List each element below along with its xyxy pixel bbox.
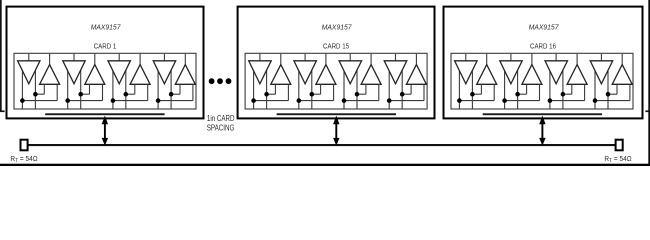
wire: receiver R3 input+ tap: [134, 84, 136, 94]
wire: receiver R2 output to CARD15 logic: [325, 54, 327, 65]
wire: receiver R1 output to CARD1 logic: [49, 54, 51, 65]
wire: receiver R1 input+ tap: [274, 84, 276, 94]
driver buffer D2 (CARD1): [63, 61, 85, 84]
wire: driver D3 input from CARD15 logic: [349, 54, 351, 61]
junction: D4 output- node: [593, 98, 598, 103]
driver buffer D2 (CARD15): [294, 61, 317, 84]
wire: receiver R2 input- tap: [102, 84, 104, 100]
junction: D1 output+ node: [470, 92, 475, 97]
wire: net D3-/R3- link: [113, 100, 148, 102]
wire: net D3+/R3+ link: [126, 93, 135, 95]
wire: driver D4 output- to bus stub: [607, 65, 609, 109]
card edge connector bar (CARD15): [277, 113, 396, 115]
junction: D4 output+ node: [169, 92, 174, 97]
wire: receiver R4 input+ tap: [616, 84, 618, 94]
wire: driver D1 input from CARD16 logic: [465, 54, 467, 61]
wire: receiver R4 input- tap: [192, 84, 194, 100]
wire: receiver R2 output to CARD1 logic: [94, 54, 96, 65]
wire: backplane bus: [28, 144, 615, 146]
receiver buffer R2 (CARD1): [85, 65, 105, 85]
wire: net D1+/R1+ link: [472, 93, 481, 95]
wire: bus stub arrow (CARD1 to backplane): [102, 116, 108, 146]
junction: D3 output- node: [548, 98, 553, 103]
wire: driver D1 input from CARD15 logic: [259, 54, 261, 61]
wire: receiver R3 input- tap: [147, 84, 149, 100]
junction: D2 output- node: [502, 98, 507, 103]
wire: net D1-/R1- link: [459, 100, 494, 102]
receiver buffer R3 (CARD16): [567, 65, 587, 85]
receiver buffer R1 (CARD15): [271, 65, 291, 85]
svg-text:MAX9157: MAX9157: [322, 22, 353, 32]
junction: D1 output- node: [20, 98, 25, 103]
wire: driver D2 input from CARD1 logic: [73, 54, 75, 61]
label CARD 15: [323, 43, 349, 51]
wire: receiver R3 input+ tap: [365, 84, 367, 94]
wire: driver D2 output+ to bus stub: [504, 66, 506, 109]
IC MAX9157 body box on CARD 16: [451, 53, 633, 109]
wire: net D1+/R1+ link: [267, 93, 276, 95]
junction: D3 output+ node: [561, 92, 566, 97]
wire: driver D1 output+ to bus stub: [458, 66, 460, 109]
wire: receiver R3 output to CARD15 logic: [370, 54, 372, 65]
junction: D4 output- node: [156, 98, 161, 103]
wire: driver D3 input from CARD16 logic: [555, 54, 557, 61]
driver buffer D4 (CARD1): [153, 61, 176, 84]
wire: driver D3 input from CARD1 logic: [118, 54, 120, 61]
IC MAX9157 body box on CARD 15: [245, 53, 427, 109]
value label RT = 54ohm (left): [10, 155, 37, 165]
wire: driver D3 output+ to bus stub: [343, 66, 345, 109]
wire: driver D1 output- to bus stub: [34, 65, 36, 109]
wire: net D1-/R1- link: [22, 100, 57, 102]
wire: net D2+/R2+ link: [518, 93, 527, 95]
wire: driver D2 output- to bus stub: [311, 65, 313, 109]
junction: D2 output+ node: [515, 92, 520, 97]
wire: receiver R4 input+ tap: [179, 84, 181, 94]
wire: receiver R2 input+ tap: [320, 84, 322, 94]
wire: driver D1 output+ to bus stub: [21, 66, 23, 109]
wire: driver D3 output+ to bus stub: [549, 66, 551, 109]
svg-text:CARD 16: CARD 16: [530, 43, 556, 51]
wire: receiver R2 input- tap: [333, 84, 335, 100]
wire: net D3+/R3+ link: [357, 93, 366, 95]
wire: receiver R1 input+ tap: [43, 84, 45, 94]
wire: driver D3 output- to bus stub: [562, 65, 564, 109]
receiver buffer R3 (CARD1): [130, 65, 150, 85]
wire: receiver R4 input+ tap: [410, 84, 412, 94]
svg-text:1in CARD: 1in CARD: [207, 116, 235, 124]
receiver buffer R4 (CARD15): [406, 65, 426, 85]
wire: net D3+/R3+ link: [563, 93, 572, 95]
wire: driver D2 output- to bus stub: [517, 65, 519, 109]
driver buffer D4 (CARD15): [384, 61, 407, 84]
card module CARD 15 outline: [238, 7, 435, 119]
wire: driver D4 input from CARD15 logic: [395, 54, 397, 61]
wire: net D2-/R2- link: [505, 100, 540, 102]
driver buffer D3 (CARD16): [545, 61, 568, 84]
junction: D2 output- node: [297, 98, 302, 103]
svg-text:CARD 1: CARD 1: [94, 43, 117, 51]
receiver buffer R2 (CARD16): [522, 65, 542, 85]
wire: receiver R4 output to CARD16 logic: [621, 54, 623, 65]
wire: net D4+/R4+ link: [608, 93, 617, 95]
wire: receiver R4 output to CARD15 logic: [415, 54, 417, 65]
receiver buffer R3 (CARD15): [361, 65, 381, 85]
junction: D3 output+ node: [355, 92, 360, 97]
wire: bus stub arrow (CARD15 to backplane): [333, 116, 339, 146]
driver buffer D2 (CARD16): [500, 61, 522, 84]
wire: receiver R3 input- tap: [584, 84, 586, 100]
wire: net D4+/R4+ link: [171, 93, 180, 95]
wire: net D1+/R1+ link: [35, 93, 44, 95]
wire: receiver R4 input- tap: [423, 84, 425, 100]
wire: driver D2 output- to bus stub: [80, 65, 82, 109]
wire: receiver R2 input+ tap: [526, 84, 528, 94]
junction: D2 output- node: [65, 98, 70, 103]
wire: net D4-/R4- link: [595, 100, 630, 102]
wire: net D2+/R2+ link: [81, 93, 90, 95]
wire: driver D1 output- to bus stub: [266, 65, 268, 109]
svg-text:RT = 54Ω: RT = 54Ω: [10, 155, 37, 165]
wire: driver D3 output- to bus stub: [356, 65, 358, 109]
wire: driver D3 output- to bus stub: [125, 65, 127, 109]
resistor RT (right termination): [616, 140, 623, 151]
ellipsis: repeated cards 2..14: [209, 78, 232, 84]
wire: driver D1 input from CARD1 logic: [28, 54, 30, 61]
junction: D2 output+ node: [78, 92, 83, 97]
label CARD 16: [530, 43, 556, 51]
wire: driver D4 input from CARD16 logic: [600, 54, 602, 61]
wire: driver D1 output- to bus stub: [471, 65, 473, 109]
wire: net D4+/R4+ link: [402, 93, 411, 95]
wire: net D2+/R2+ link: [312, 93, 321, 95]
receiver buffer R4 (CARD16): [612, 65, 632, 85]
driver buffer D4 (CARD16): [590, 61, 613, 84]
receiver buffer R1 (CARD1): [40, 65, 60, 85]
svg-text:SPACING: SPACING: [207, 125, 235, 133]
receiver buffer R1 (CARD16): [477, 65, 497, 85]
card module CARD 1 outline: [7, 7, 204, 119]
label CARD 1: [94, 43, 117, 51]
wire: driver D2 input from CARD15 logic: [304, 54, 306, 61]
IC MAX9157 body box on CARD 1: [14, 53, 196, 109]
card edge connector bar (CARD1): [45, 113, 164, 115]
junction: D3 output+ node: [124, 92, 129, 97]
wire: driver D2 output+ to bus stub: [298, 66, 300, 109]
wire: net D3-/R3- link: [550, 100, 585, 102]
wire: net D2-/R2- link: [68, 100, 103, 102]
wire: net D3-/R3- link: [344, 100, 379, 102]
junction: D3 output- node: [111, 98, 116, 103]
wire: receiver R2 input+ tap: [89, 84, 91, 94]
wire: driver D2 input from CARD16 logic: [510, 54, 512, 61]
card edge connector bar (CARD16): [483, 113, 602, 115]
IC U3 label MAX9157 on CARD 16: [529, 22, 560, 32]
wire: driver D4 output+ to bus stub: [594, 66, 596, 109]
junction: D4 output- node: [387, 98, 392, 103]
wire: receiver R3 input+ tap: [571, 84, 573, 94]
wire: receiver R2 input- tap: [539, 84, 541, 100]
junction: D4 output+ node: [400, 92, 405, 97]
wire: driver D4 output- to bus stub: [401, 65, 403, 109]
wire: receiver R1 output to CARD16 logic: [486, 54, 488, 65]
wire: receiver R4 output to CARD1 logic: [184, 54, 186, 65]
driver buffer D3 (CARD15): [339, 61, 362, 84]
junction: D1 output+ node: [264, 92, 269, 97]
svg-text:CARD 15: CARD 15: [323, 43, 349, 51]
wire: driver D4 input from CARD1 logic: [163, 54, 165, 61]
wire: receiver R2 output to CARD16 logic: [531, 54, 533, 65]
wire: driver D4 output- to bus stub: [170, 65, 172, 109]
wire: receiver R3 output to CARD16 logic: [576, 54, 578, 65]
junction: D1 output- node: [457, 98, 462, 103]
wire: driver D3 output+ to bus stub: [112, 66, 114, 109]
wire: receiver R1 input- tap: [56, 84, 58, 100]
driver buffer D1 (CARD15): [249, 61, 272, 84]
left figure crop edge bracket: [0, 0, 5, 112]
wire: receiver R1 input- tap: [493, 84, 495, 100]
wire: bus stub arrow (CARD16 to backplane): [539, 116, 545, 146]
svg-text:MAX9157: MAX9157: [529, 22, 560, 32]
driver buffer D1 (CARD1): [18, 61, 40, 84]
wire: net D2-/R2- link: [299, 100, 334, 102]
receiver buffer R2 (CARD15): [316, 65, 336, 85]
IC U2 label MAX9157 on CARD 15: [322, 22, 353, 32]
right figure crop edge bracket: [645, 0, 650, 166]
wire: driver D4 output+ to bus stub: [157, 66, 159, 109]
resistor RT (left termination): [21, 140, 28, 151]
bottom figure border: [0, 164, 650, 166]
wire: receiver R3 input- tap: [378, 84, 380, 100]
receiver buffer R4 (CARD1): [175, 65, 195, 85]
IC U1 label MAX9157 on CARD 1: [91, 22, 122, 32]
wire: receiver R4 input- tap: [629, 84, 631, 100]
wire: driver D2 output+ to bus stub: [67, 66, 69, 109]
junction: D4 output+ node: [606, 92, 611, 97]
junction: D1 output- node: [251, 98, 256, 103]
wire: driver D4 output+ to bus stub: [388, 66, 390, 109]
svg-text:RT = 54Ω: RT = 54Ω: [604, 155, 631, 165]
wire: net D4-/R4- link: [389, 100, 424, 102]
value label RT = 54ohm (right): [604, 155, 631, 165]
junction: D2 output+ node: [310, 92, 315, 97]
dimension label: 1in CARD SPACING: [207, 116, 235, 133]
wire: driver D1 output+ to bus stub: [253, 66, 255, 109]
junction: D3 output- node: [342, 98, 347, 103]
wire: receiver R1 input+ tap: [480, 84, 482, 94]
junction: D1 output+ node: [33, 92, 38, 97]
wire: receiver R1 input- tap: [287, 84, 289, 100]
driver buffer D3 (CARD1): [108, 61, 130, 84]
svg-text:MAX9157: MAX9157: [91, 22, 122, 32]
wire: net D4-/R4- link: [158, 100, 193, 102]
wire: receiver R1 output to CARD15 logic: [280, 54, 282, 65]
driver buffer D1 (CARD16): [455, 61, 478, 84]
wire: receiver R3 output to CARD1 logic: [139, 54, 141, 65]
card module CARD 16 outline: [444, 7, 643, 119]
wire: net D1-/R1- link: [254, 100, 289, 102]
